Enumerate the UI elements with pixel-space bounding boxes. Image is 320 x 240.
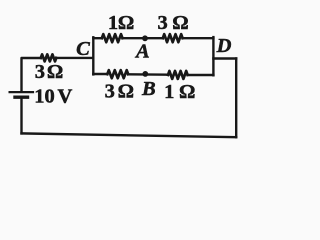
battery B1 positive plate (long) [10,91,33,93]
svg-text:C: C [76,38,90,60]
svg-text:1 Ω: 1 Ω [164,81,195,103]
resistor R3 3 ohm (top branch right) [163,34,183,42]
wire: R2 through node A to R3 [123,37,163,39]
battery B1 negative plate (short thick) [15,95,28,98]
wire: R5 to node D [188,74,214,76]
svg-text:B: B [141,78,156,100]
resistor R4 3 ohm (bottom branch left) [107,70,128,78]
wire: R4 through node B to R5 [128,73,168,76]
svg-text:3 Ω: 3 Ω [35,61,64,83]
node C vertical junction bar [92,37,94,74]
node D vertical junction bar [212,37,214,75]
svg-text:10 V: 10 V [34,86,72,108]
wire: node C to resistor R2 (top branch lead) [93,37,102,39]
svg-text:D: D [216,35,232,57]
resistor R2 1 ohm (top branch left) [102,34,123,42]
resistor R5 1 ohm (bottom branch right) [168,71,188,79]
svg-text:1 Ω: 1 Ω [108,12,135,34]
wire: bottom return rail [22,133,237,137]
wire: node D to right edge [213,57,236,59]
wire: node C to resistor R4 (bottom branch lead) [93,73,107,75]
wire: left side up to battery negative terminal [20,98,22,134]
wire: R3 to node D corner [183,37,214,39]
wire: right side vertical [235,59,237,138]
wire: battery positive terminal up to top-left corner and right to R1 [22,58,41,91]
wire: R1 to node C junction [56,57,93,59]
svg-text:3 Ω: 3 Ω [157,12,188,34]
node B junction dot [142,71,148,77]
svg-text:3 Ω: 3 Ω [105,80,134,102]
node A junction dot [142,35,148,41]
svg-text:A: A [134,41,150,63]
resistor R1 3 ohm (series, top-left) [41,54,57,61]
